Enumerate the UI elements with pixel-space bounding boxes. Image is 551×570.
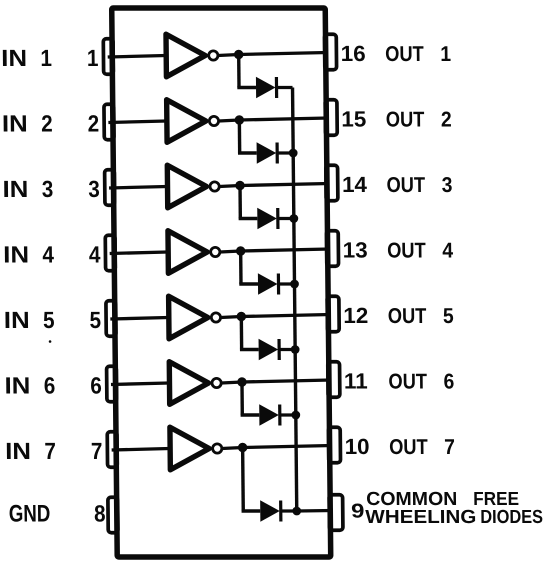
svg-text:1: 1 [440,42,451,66]
svg-text:IN: IN [1,46,27,72]
svg-text:6: 6 [44,372,56,399]
svg-text:14: 14 [342,172,368,197]
svg-text:3: 3 [42,176,54,203]
svg-text:OUT: OUT [388,305,427,329]
svg-text:7: 7 [91,438,103,465]
svg-text:OUT: OUT [389,436,428,460]
svg-text:OUT: OUT [385,43,424,67]
svg-text:OUT: OUT [386,174,425,198]
svg-text:7: 7 [44,438,56,465]
svg-text:9: 9 [351,500,365,523]
svg-text:4: 4 [442,239,454,263]
svg-text:16: 16 [341,41,366,66]
svg-text:IN: IN [3,243,29,269]
svg-text:5: 5 [43,307,55,334]
svg-text:12: 12 [343,303,368,328]
svg-text:1: 1 [40,45,52,72]
svg-text:DIODES: DIODES [480,506,543,527]
svg-text:15: 15 [341,107,366,132]
svg-text:2: 2 [441,108,452,132]
svg-text:OUT: OUT [386,108,425,132]
svg-text:10: 10 [344,434,369,459]
svg-text:11: 11 [344,369,368,394]
svg-text:IN: IN [4,374,30,400]
svg-text:5: 5 [443,304,454,328]
svg-text:OUT: OUT [388,370,427,394]
svg-text:2: 2 [41,110,53,137]
svg-text:5: 5 [89,307,101,334]
svg-text:1: 1 [87,45,99,72]
svg-text:4: 4 [42,241,54,268]
svg-text:WHEELING: WHEELING [365,507,476,528]
svg-text:3: 3 [88,176,100,203]
svg-text:2: 2 [88,110,100,137]
svg-text:IN: IN [2,177,28,203]
svg-text:4: 4 [89,241,101,268]
svg-text:IN: IN [2,112,28,138]
svg-text:IN: IN [5,439,31,465]
svg-text:8: 8 [94,500,106,527]
svg-text:GND: GND [9,500,51,527]
svg-text:6: 6 [90,372,102,399]
svg-text:3: 3 [442,173,453,197]
svg-text:OUT: OUT [387,239,426,263]
svg-text:IN: IN [4,308,30,334]
svg-text:6: 6 [443,370,454,394]
svg-text:13: 13 [343,238,368,263]
svg-text:7: 7 [444,435,455,459]
